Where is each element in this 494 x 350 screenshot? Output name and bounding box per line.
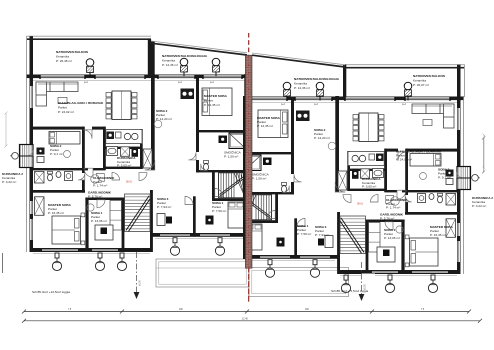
svg-text:P: 16,35 m²: P: 16,35 m² bbox=[48, 211, 64, 215]
columns loggia right bbox=[283, 82, 291, 100]
svg-text:Keramika: Keramika bbox=[413, 79, 426, 83]
svg-text:P: 12,36 m²: P: 12,36 m² bbox=[162, 63, 178, 67]
column balcony left bbox=[86, 59, 94, 77]
right loggia right wall bbox=[343, 65, 346, 98]
svg-text:P: 1,50 m²: P: 1,50 m² bbox=[224, 155, 238, 159]
small left edge tick bbox=[2, 253, 4, 273]
svg-text:P: 14,20 m²: P: 14,20 m² bbox=[156, 117, 172, 121]
svg-text:P: 26,48 m²: P: 26,48 m² bbox=[56, 59, 72, 63]
column balcony right bbox=[404, 82, 412, 100]
right unit interior (mirrored) bbox=[243, 96, 486, 293]
right unit room labels bbox=[252, 116, 493, 240]
svg-text:P: 5,76 m²: P: 5,76 m² bbox=[380, 216, 394, 220]
svg-text:P: 12,35 m²: P: 12,35 m² bbox=[257, 124, 273, 128]
left balcony right wall bbox=[148, 39, 151, 75]
dim line A bbox=[22, 310, 471, 314]
svg-text:KUHI./BLAG./AON. I BORAVAK: KUHI./BLAG./AON. I BORAVAK bbox=[58, 101, 104, 105]
svg-text:P: 13,06 m²: P: 13,06 m² bbox=[384, 236, 400, 240]
svg-text:P: 24,02 m²: P: 24,02 m² bbox=[58, 110, 74, 114]
svg-text:P: 7,94 m²: P: 7,94 m² bbox=[157, 205, 171, 209]
svg-text:±0,00: ±0,00 bbox=[140, 280, 142, 286]
svg-text:Keramika: Keramika bbox=[56, 55, 69, 59]
level marker right bbox=[361, 262, 363, 294]
svg-text:P: 26,07 m²: P: 26,07 m² bbox=[413, 83, 429, 87]
svg-text:P: 13,06 m²: P: 13,06 m² bbox=[91, 219, 107, 223]
svg-text:P: 7,50 m²: P: 7,50 m² bbox=[212, 209, 226, 213]
terrace right bbox=[249, 268, 349, 297]
svg-text:NATKRIVEN BALKON: NATKRIVEN BALKON bbox=[413, 74, 446, 78]
svg-text:S2=85,3m2 + 5,5m2 loggia: S2=85,3m2 + 5,5m2 loggia bbox=[331, 289, 368, 293]
svg-text:P: 5,76 m²: P: 5,76 m² bbox=[88, 194, 102, 198]
svg-text:P: 3,22 m²: P: 3,22 m² bbox=[472, 204, 486, 208]
level marker left bbox=[136, 252, 138, 292]
svg-text:MASTER SOBA: MASTER SOBA bbox=[204, 94, 228, 98]
svg-text:P: 12,36 m²: P: 12,36 m² bbox=[294, 86, 310, 90]
svg-text:P: 1,74 m²: P: 1,74 m² bbox=[386, 206, 400, 210]
right balcony right wall bbox=[463, 65, 465, 98]
svg-text:P: 7,94 m²: P: 7,94 m² bbox=[315, 233, 329, 237]
svg-text:NATKRIVEN BALKON: NATKRIVEN BALKON bbox=[56, 50, 89, 54]
post relocation right bbox=[361, 274, 375, 295]
svg-text:Parket: Parket bbox=[204, 99, 213, 103]
svg-text:Parket: Parket bbox=[58, 106, 67, 110]
svg-text:P: 16,35 m²: P: 16,35 m² bbox=[430, 233, 446, 237]
left loggia left wall bbox=[151, 42, 155, 76]
right balcony top wall bbox=[345, 64, 465, 66]
svg-text:P: 3,22 m²: P: 3,22 m² bbox=[2, 180, 16, 184]
left loggia slanted roof edge bbox=[151, 41, 247, 53]
party wall brick bbox=[245, 55, 252, 268]
svg-text:S2=85,3m2 +13,5m2 loggia: S2=85,3m2 +13,5m2 loggia bbox=[32, 290, 70, 294]
left balcony left wall bbox=[26, 36, 28, 75]
left unit room labels bbox=[2, 94, 242, 223]
terrace left bbox=[156, 259, 249, 287]
red line below onto terrace bbox=[248, 268, 250, 302]
svg-text:P: 9,1 m²: P: 9,1 m² bbox=[438, 176, 451, 180]
red property line full bbox=[248, 33, 250, 302]
svg-text:P: 1,74 m²: P: 1,74 m² bbox=[93, 184, 107, 188]
svg-text:08 61: 08 61 bbox=[357, 203, 364, 206]
red dots over brick bbox=[248, 56, 250, 268]
svg-text:P: 1,50 m²: P: 1,50 m² bbox=[252, 177, 266, 181]
svg-text:NATKRIVEN BALKON/LOGGIA: NATKRIVEN BALKON/LOGGIA bbox=[162, 54, 208, 58]
svg-text:P: 12,35 m²: P: 12,35 m² bbox=[204, 103, 220, 107]
left balcony top wall bbox=[27, 35, 151, 37]
svg-text:Keramika: Keramika bbox=[294, 82, 307, 86]
columns loggia left bbox=[180, 58, 188, 76]
svg-text:P: 14,20 m²: P: 14,20 m² bbox=[314, 136, 330, 140]
svg-text:P: 5,65 m²: P: 5,65 m² bbox=[362, 185, 376, 189]
svg-text:P: 9,1 m²: P: 9,1 m² bbox=[50, 152, 63, 156]
svg-text:P: 5,65 m²: P: 5,65 m² bbox=[117, 163, 131, 167]
svg-text:P: 7,50 m²: P: 7,50 m² bbox=[297, 232, 311, 236]
right loggia slanted roof edge bbox=[252, 53, 345, 65]
red line above roof bbox=[248, 33, 250, 55]
svg-text:P: 24,02 m²: P: 24,02 m² bbox=[396, 158, 412, 162]
svg-text:08 61: 08 61 bbox=[126, 181, 133, 184]
dim line B bbox=[22, 319, 482, 323]
svg-text:Keramika: Keramika bbox=[162, 59, 175, 63]
svg-text:12.40: 12.40 bbox=[242, 318, 248, 320]
left unit interior bbox=[5, 74, 248, 271]
svg-text:NATKRIVEN BALKON/LOGGIA: NATKRIVEN BALKON/LOGGIA bbox=[294, 77, 340, 81]
